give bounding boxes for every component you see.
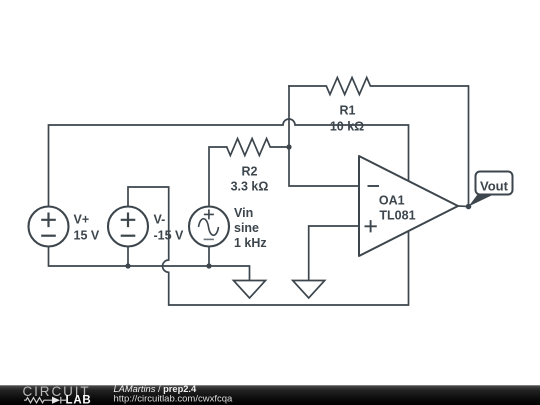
- svg-text:LAB: LAB: [66, 395, 92, 405]
- svg-text:3.3 kΩ: 3.3 kΩ: [231, 180, 269, 194]
- svg-text:V-: V-: [154, 212, 166, 226]
- svg-text:15 V: 15 V: [74, 228, 100, 242]
- svg-text:V+: V+: [74, 212, 90, 226]
- svg-text:http://circuitlab.com/cwxfcqa: http://circuitlab.com/cwxfcqa: [114, 393, 234, 404]
- svg-text:TL081: TL081: [379, 208, 415, 222]
- svg-text:R2: R2: [242, 165, 258, 179]
- svg-text:-15 V: -15 V: [154, 228, 185, 242]
- svg-text:10 kΩ: 10 kΩ: [330, 119, 364, 133]
- svg-text:Vout: Vout: [480, 178, 509, 193]
- svg-text:sine: sine: [234, 221, 259, 235]
- svg-text:1 kHz: 1 kHz: [234, 236, 267, 250]
- svg-text:OA1: OA1: [379, 193, 405, 207]
- svg-text:Vin: Vin: [234, 206, 253, 220]
- svg-text:R1: R1: [340, 103, 356, 117]
